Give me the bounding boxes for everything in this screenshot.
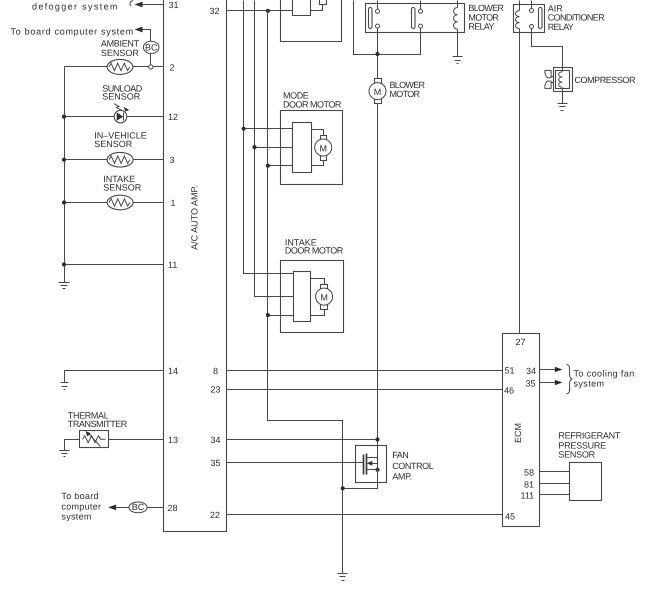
ground compressor <box>558 103 568 105</box>
wire BC oval to junction circle <box>150 54 152 65</box>
wire pin 11 <box>65 264 164 266</box>
wire bus3 to intake motor <box>268 315 294 317</box>
junction dot on ground bus <box>341 486 345 490</box>
wire BC oval to pin 28 <box>148 507 164 509</box>
wire AC relay coil down to ECM 27 <box>519 29 521 334</box>
svg-text:To cooling fan: To cooling fan <box>574 369 635 379</box>
wire arrow to BC oval <box>116 507 129 509</box>
junction dot <box>266 164 270 168</box>
wire relay pins to top <box>377 1 379 10</box>
wire pin 23 to ECM 46 <box>227 389 503 391</box>
junction dot <box>62 115 66 119</box>
wire relay contacts down to node <box>377 29 379 79</box>
air mix door motor position rect <box>293 0 311 16</box>
wire ambient to left bus <box>65 66 108 68</box>
wire feed from top to relay output node <box>354 1 378 55</box>
svg-text:45: 45 <box>505 511 515 521</box>
wire pin 14 <box>65 371 164 383</box>
svg-text:81: 81 <box>524 479 534 489</box>
AC relay contact bar <box>539 8 543 29</box>
ground blower relay <box>453 56 463 58</box>
compressor clutch <box>545 70 551 88</box>
thermal transmitter <box>80 431 109 448</box>
wire bus line 2 <box>255 1 294 297</box>
junction dot ground bus on pin32 wire <box>266 9 270 13</box>
BC oval top <box>143 41 159 53</box>
svg-text:defogger system: defogger system <box>32 2 119 12</box>
wire rect to motor top <box>312 130 324 136</box>
svg-text:35: 35 <box>526 379 536 389</box>
svg-text:34: 34 <box>211 435 221 445</box>
wire ambient to pin 2 <box>133 66 149 68</box>
svg-text:CONTROL: CONTROL <box>392 461 434 471</box>
intake door motor position rect <box>294 272 311 322</box>
wire motor bottom to rect <box>312 161 324 166</box>
svg-text:11: 11 <box>168 260 177 270</box>
svg-text:51: 51 <box>505 366 515 376</box>
AC relay contact circles <box>530 9 534 13</box>
junction dot <box>62 200 66 204</box>
svg-text:SENSOR: SENSOR <box>103 182 142 192</box>
svg-text:To board: To board <box>61 491 98 501</box>
wire 58 to sensor <box>540 471 570 473</box>
relay contact bar 1 <box>369 8 373 29</box>
svg-text:M: M <box>320 293 328 303</box>
wire intake row <box>65 202 108 204</box>
svg-text:computer: computer <box>61 501 101 511</box>
wire thermal transmitter to pin 13 <box>109 439 164 441</box>
compressor inner box <box>556 71 570 89</box>
brace curl <box>130 1 133 7</box>
svg-text:DOOR MOTOR: DOOR MOTOR <box>283 100 342 110</box>
svg-text:M: M <box>374 87 382 97</box>
svg-text:A/C AUTO AMP.: A/C AUTO AMP. <box>190 185 200 250</box>
arrow to cooling fan 1 <box>540 369 559 371</box>
wire motor to rect <box>311 5 323 11</box>
wire pin31 to defogger <box>143 4 164 6</box>
air conditioner relay box <box>514 5 545 33</box>
wire rect to motor top <box>311 279 325 285</box>
svg-text:35: 35 <box>211 458 221 468</box>
wire bus3 to mode motor <box>268 165 293 167</box>
A/C auto amp box <box>164 0 227 532</box>
wire ground bus line 3 <box>268 11 343 574</box>
svg-text:46: 46 <box>504 385 514 395</box>
svg-text:SENSOR: SENSOR <box>102 92 141 102</box>
FET channel bar <box>366 454 368 475</box>
junction dot <box>266 313 270 317</box>
wire in-vehicle row <box>65 159 108 161</box>
svg-text:SENSOR: SENSOR <box>101 48 140 58</box>
svg-text:M: M <box>319 144 327 154</box>
svg-text:TRANSMITTER: TRANSMITTER <box>68 419 128 429</box>
wire pin 34 to blower line <box>227 439 378 441</box>
left bus wire <box>64 67 66 283</box>
svg-text:BC: BC <box>145 42 158 52</box>
FET source stub <box>367 469 378 471</box>
arrow to board computer <box>108 505 116 511</box>
intake door motor motor <box>321 285 328 290</box>
wire bus1 to mode motor <box>244 128 293 130</box>
relay contact bar 2 <box>412 8 416 29</box>
svg-text:23: 23 <box>211 385 221 395</box>
compressor coil <box>559 72 563 87</box>
svg-text:To board computer system: To board computer system <box>11 27 134 37</box>
FET gate bar <box>363 455 365 475</box>
svg-text:31: 31 <box>169 0 179 10</box>
blower motor <box>375 79 382 84</box>
AC relay coil <box>516 11 520 29</box>
ground thermal transmitter <box>60 450 70 452</box>
wire pin 32 to air mix door motor <box>227 10 293 12</box>
wire pin 8 to ECM 51 <box>227 370 503 372</box>
FET drain stub <box>367 457 378 459</box>
mode door motor position rect <box>293 123 312 173</box>
compressor outer box <box>554 68 573 92</box>
svg-text:27: 27 <box>516 337 526 347</box>
svg-text:REFRIGERANT: REFRIGERANT <box>558 431 621 441</box>
svg-text:8: 8 <box>213 366 218 376</box>
relay contact circles 1 <box>376 9 380 13</box>
junction dot <box>62 262 66 266</box>
mode door motor outer box <box>281 111 343 185</box>
sunload light arrows <box>114 104 122 111</box>
wire pin 35 to FET gate <box>227 462 364 464</box>
intake sensor (thermistor) <box>107 195 133 210</box>
svg-text:3: 3 <box>170 155 175 165</box>
wire bus line 1 <box>244 1 294 274</box>
junction dot <box>242 127 246 131</box>
wire AC relay contact to compressor <box>532 29 563 72</box>
junction dot <box>252 145 256 149</box>
svg-text:34: 34 <box>526 366 536 376</box>
svg-text:58: 58 <box>524 468 534 478</box>
refrigerant pressure sensor box <box>570 463 602 501</box>
cooling fan brace <box>566 364 572 394</box>
mode door motor motor <box>321 136 327 141</box>
wire motor bottom to rect <box>311 310 325 316</box>
wire 111 to sensor <box>540 494 570 496</box>
BC oval bottom <box>129 502 147 513</box>
svg-text:FAN: FAN <box>392 450 408 460</box>
svg-text:system: system <box>61 512 91 522</box>
wire pin 22 to ECM 45 <box>227 514 503 516</box>
svg-text:32: 32 <box>210 6 220 16</box>
relay coil <box>454 8 458 30</box>
svg-text:RELAY: RELAY <box>548 22 574 32</box>
blower motor relay box <box>366 4 465 33</box>
svg-text:22: 22 <box>210 510 220 520</box>
junction dot <box>62 158 66 162</box>
relay contact circles 2 <box>419 9 423 13</box>
ground pin 14 <box>61 382 69 384</box>
svg-text:SENSOR: SENSOR <box>94 139 133 149</box>
fan control amp box <box>356 446 387 483</box>
sunload sensor (photodiode) <box>114 110 127 123</box>
svg-text:COMPRESSOR: COMPRESSOR <box>575 75 636 85</box>
wire BC to arrow <box>143 30 151 42</box>
svg-text:1: 1 <box>171 198 176 208</box>
svg-text:system: system <box>574 379 605 389</box>
svg-text:28: 28 <box>168 503 178 513</box>
svg-text:MOTOR: MOTOR <box>390 89 421 99</box>
arrow to defogger system <box>135 2 143 8</box>
open junction circle pin2 <box>149 65 153 69</box>
ground left bus <box>59 282 70 284</box>
arrow to board computer system <box>135 27 143 33</box>
wire thermal transmitter to ground <box>65 440 80 451</box>
in-vehicle sensor (thermistor) <box>107 152 133 167</box>
junction dot <box>375 437 379 441</box>
svg-text:BC: BC <box>132 502 145 512</box>
svg-text:AMP.: AMP. <box>392 471 412 481</box>
ground bottom center <box>338 573 348 575</box>
intake door motor outer box <box>281 261 344 333</box>
air mix door motor nub <box>320 0 327 5</box>
wire compressor to ground <box>562 88 564 104</box>
wire bus2 to mode motor <box>255 147 293 149</box>
svg-text:RELAY: RELAY <box>468 22 494 32</box>
wire FET rail through box to ground bus <box>343 446 378 489</box>
svg-text:SENSOR: SENSOR <box>558 450 595 460</box>
svg-text:14: 14 <box>168 366 178 376</box>
junction dot blower node <box>375 52 379 56</box>
ECM box <box>503 334 540 527</box>
FET body arrow <box>371 463 378 465</box>
air mix door motor outer box <box>281 0 342 42</box>
ambient sensor (thermistor) <box>107 59 133 74</box>
wire relay coil to ground <box>457 30 459 57</box>
svg-text:2: 2 <box>170 62 175 72</box>
svg-text:13: 13 <box>168 435 178 445</box>
arrow to cooling fan 2 <box>540 382 559 384</box>
wire blower motor down to fan control amp <box>377 104 379 446</box>
svg-text:ECM: ECM <box>513 423 523 443</box>
svg-text:DOOR MOTOR: DOOR MOTOR <box>285 245 344 255</box>
wire AC relay pins to top <box>519 1 521 11</box>
junction dot FET source <box>375 468 379 472</box>
wire 81 to sensor <box>540 483 570 485</box>
svg-text:12: 12 <box>168 112 178 122</box>
wire sunload row <box>65 116 115 118</box>
svg-text:111: 111 <box>521 491 535 501</box>
